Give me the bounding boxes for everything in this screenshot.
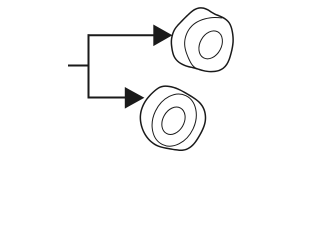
lower grommet body silhouette [140,86,205,150]
lower grommet center hole [157,103,190,139]
leader wire to lower grommet [88,97,126,99]
leader vertical wire [88,34,90,98]
upper grommet front face rim [185,18,222,69]
leader wire to upper grommet [88,34,155,36]
parts diagram: two grommets with leader arrows [0,0,300,158]
upper grommet center hole [194,27,227,63]
arrowhead to lower grommet [125,87,145,109]
leader stub wire [68,65,90,67]
lower grommet front face rim [144,87,205,154]
upper grommet body silhouette [171,8,233,72]
arrowhead to upper grommet [153,25,172,47]
